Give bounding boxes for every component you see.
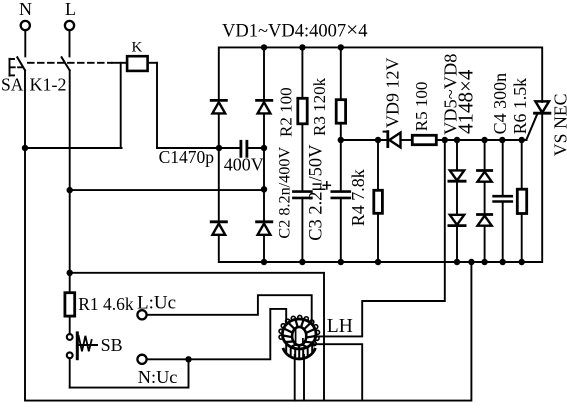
svg-text:C1470p: C1470p [159, 147, 215, 167]
svg-text:VS NEC: VS NEC [551, 93, 567, 156]
svg-text:R2 100: R2 100 [277, 87, 296, 137]
svg-text:R1 4.6k: R1 4.6k [78, 294, 134, 314]
svg-text:N:Uc: N:Uc [138, 367, 178, 387]
svg-text:SB: SB [101, 335, 123, 355]
svg-text:L:Uc: L:Uc [137, 293, 176, 314]
svg-text:L: L [65, 0, 76, 19]
svg-text:4148×4: 4148×4 [454, 69, 478, 134]
svg-text:400V: 400V [224, 155, 264, 175]
svg-text:VD9 12V: VD9 12V [383, 58, 403, 129]
svg-text:R3 120k: R3 120k [310, 77, 329, 136]
svg-text:C2 8.2n/400V: C2 8.2n/400V [276, 147, 294, 239]
svg-text:VD1~VD4:4007×4: VD1~VD4:4007×4 [222, 18, 367, 42]
svg-text:SA: SA [1, 75, 24, 95]
svg-text:R6 1.5k: R6 1.5k [510, 78, 530, 134]
svg-text:N: N [19, 0, 32, 19]
svg-text:LH: LH [327, 316, 353, 337]
svg-text:R5 100: R5 100 [412, 82, 431, 132]
svg-text:C4 300n: C4 300n [490, 73, 510, 135]
svg-text:R4 7.8k: R4 7.8k [348, 169, 368, 226]
svg-text:K1-2: K1-2 [30, 75, 67, 95]
svg-text:C3 2.2μ/50V: C3 2.2μ/50V [307, 144, 327, 241]
svg-text:K: K [132, 40, 143, 56]
